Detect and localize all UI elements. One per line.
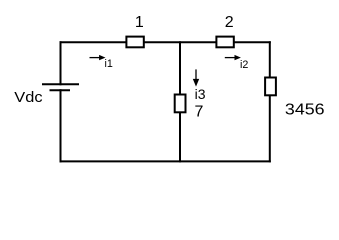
wire left branch lower (battery - plate down to bottom wire) xyxy=(60,90,62,161)
voltage source Vdc battery short plate xyxy=(50,89,71,91)
current arrow i2 shaft xyxy=(225,57,236,59)
current arrow i1 shaft xyxy=(90,57,101,59)
svg-text:2: 2 xyxy=(225,14,234,31)
current arrow i3 head xyxy=(193,79,199,87)
voltage source Vdc battery long plate xyxy=(42,83,79,85)
wire top net (left corner to right corner) xyxy=(61,41,270,43)
svg-text:1: 1 xyxy=(135,14,144,31)
wire bottom net xyxy=(61,160,270,162)
resistor R3 body (middle branch) xyxy=(175,95,186,113)
svg-text:i1: i1 xyxy=(105,58,113,70)
current arrow i3 shaft xyxy=(195,69,197,79)
svg-text:7: 7 xyxy=(195,104,204,121)
wire right branch (top right corner down to bottom right corner) xyxy=(269,42,271,161)
current arrow i1 head xyxy=(99,55,105,60)
svg-text:i2: i2 xyxy=(240,59,248,71)
svg-text:Vdc: Vdc xyxy=(14,90,43,106)
svg-text:i3: i3 xyxy=(195,86,206,102)
svg-text:3456: 3456 xyxy=(285,101,325,119)
resistor R2 body xyxy=(216,37,233,48)
current arrow i2 head xyxy=(235,55,241,60)
wire middle branch (top node to bottom node) xyxy=(179,42,181,161)
resistor R1 body xyxy=(126,37,143,48)
resistor R4 body (right branch) xyxy=(265,78,276,96)
wire left branch upper (top wire down to battery + plate) xyxy=(60,42,62,84)
